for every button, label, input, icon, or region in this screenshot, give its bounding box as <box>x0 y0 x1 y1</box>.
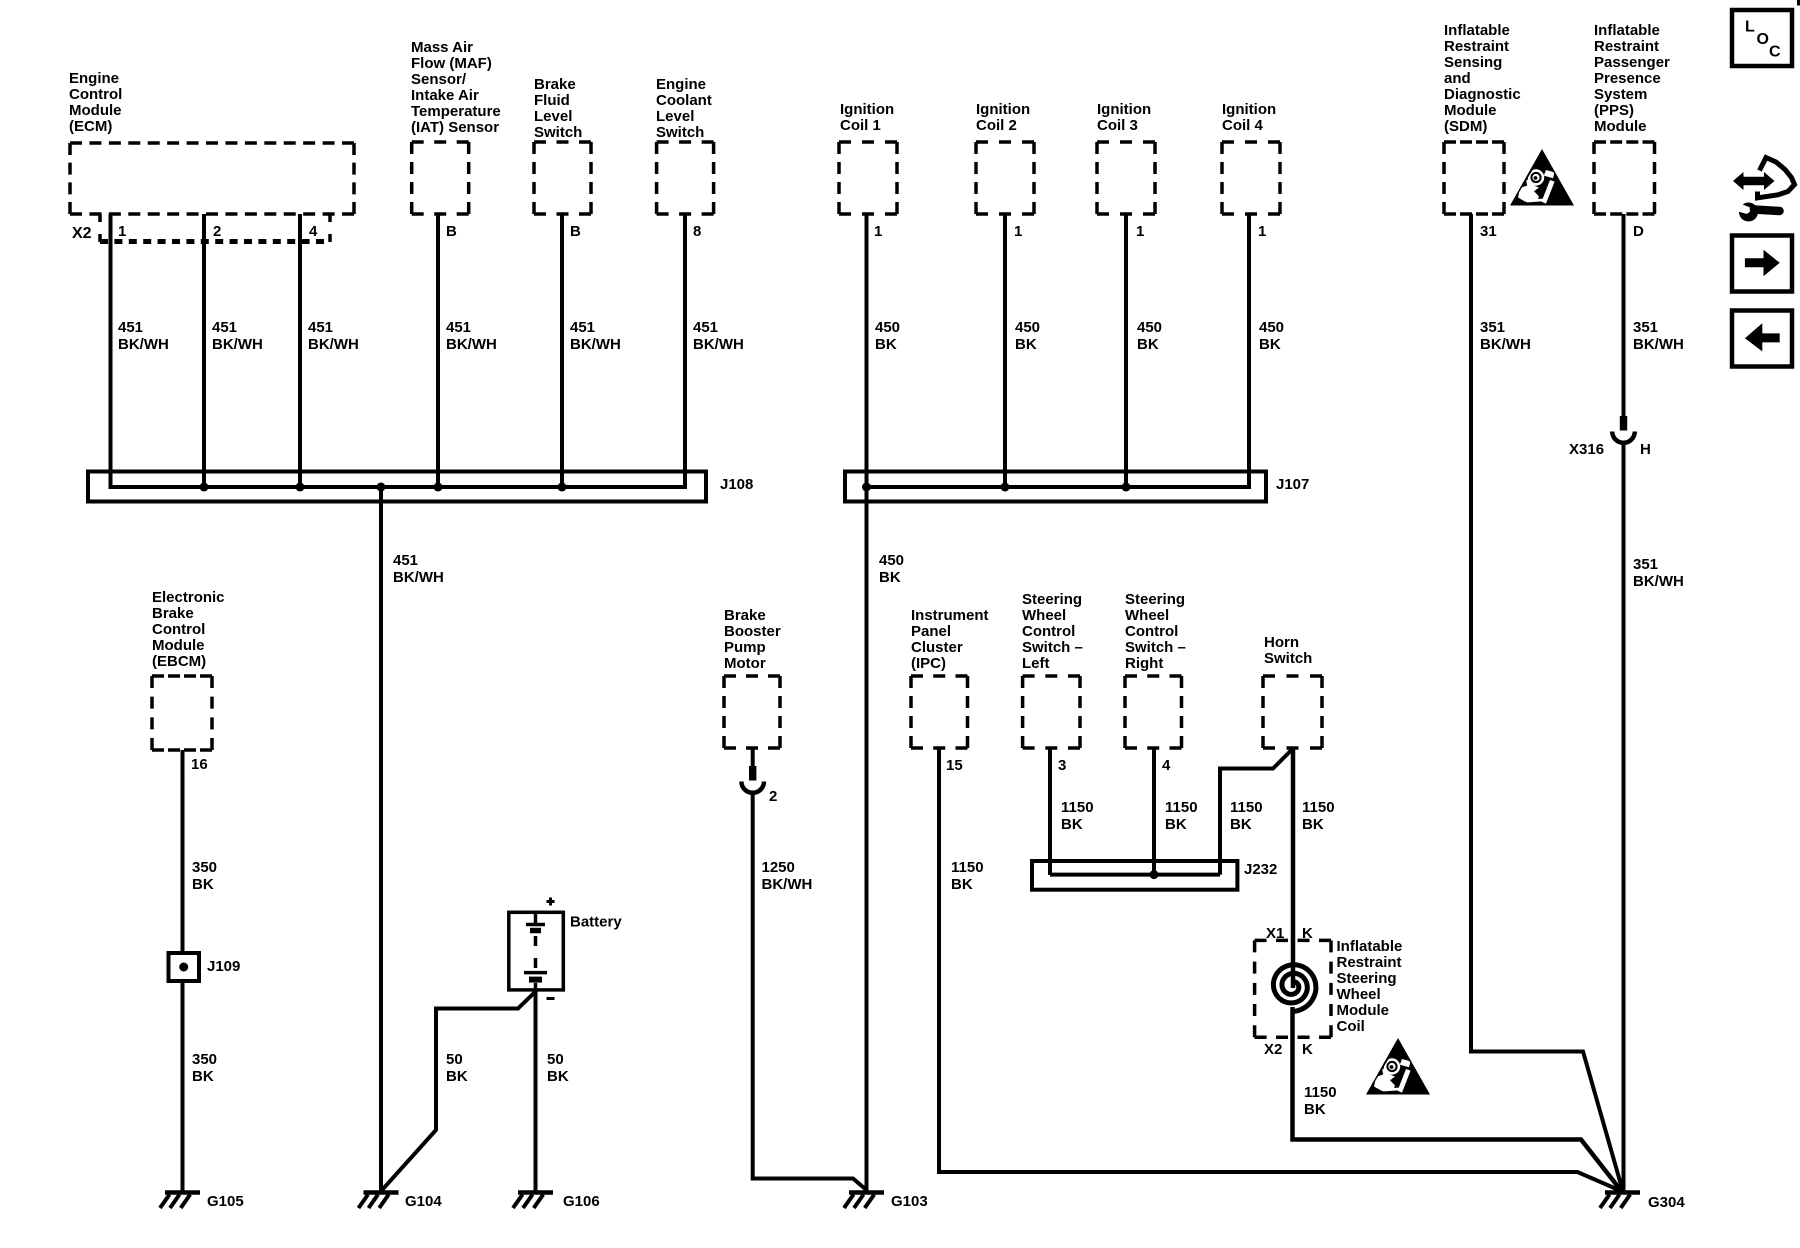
svg-text:451BK/WH: 451BK/WH <box>393 552 444 586</box>
module SWCS Left box <box>1023 676 1080 748</box>
svg-text:J107: J107 <box>1276 476 1309 493</box>
module ECLS box <box>657 142 714 214</box>
battery cells symbol <box>524 912 547 990</box>
BBPM inline connector <box>741 766 764 793</box>
splice pack J107 box <box>845 472 1266 502</box>
wire BFLS pin B to J108 <box>560 214 564 489</box>
ground G104 <box>359 1186 399 1208</box>
icon arrow right box <box>1732 236 1792 292</box>
wire battery negative branch to G104 (50 BK) <box>382 992 536 1191</box>
module steering wheel coil box <box>1255 940 1331 1037</box>
wire PPS pin D to X316 <box>1622 214 1626 416</box>
module Ignition Coil 4 box <box>1222 142 1280 214</box>
connector J109 box <box>169 953 200 981</box>
wire J108 to G104 (451 BK/WH) <box>379 487 383 1192</box>
svg-text:BrakeBoosterPumpMotor: BrakeBoosterPumpMotor <box>724 607 781 672</box>
svg-text:1: 1 <box>1014 223 1022 240</box>
module Ignition Coil 2 box <box>976 142 1034 214</box>
svg-text:450BK: 450BK <box>879 552 904 586</box>
battery minus sign <box>547 997 555 1000</box>
svg-text:2: 2 <box>769 788 777 805</box>
icon LOC box <box>1732 10 1792 66</box>
svg-text:4: 4 <box>1162 757 1171 774</box>
svg-text:1150BK: 1150BK <box>1165 799 1198 833</box>
page corner mark <box>1797 0 1800 6</box>
svg-text:1: 1 <box>118 223 126 240</box>
svg-text:50BK: 50BK <box>547 1051 569 1085</box>
ground G304 <box>1600 1186 1640 1208</box>
svg-text:B: B <box>446 223 457 240</box>
module BBPM box <box>724 676 780 748</box>
svg-text:451BK/WH: 451BK/WH <box>570 319 621 353</box>
junction dots J107 <box>862 483 1131 492</box>
icon arrow left box <box>1732 311 1792 367</box>
svg-text:450BK: 450BK <box>1137 319 1162 353</box>
module EBCM box <box>152 676 212 750</box>
svg-text:450BK: 450BK <box>1259 319 1284 353</box>
wire X316 to G304 (351 BK/WH) <box>1622 442 1626 1192</box>
wire MAF pin B to J108 <box>436 214 440 489</box>
module BFLS box <box>534 142 591 214</box>
svg-text:G106: G106 <box>563 1193 600 1210</box>
SRS warning triangle lower <box>1366 1038 1430 1095</box>
svg-text:InflatableRestraintSensingandD: InflatableRestraintSensingandDiagnosticM… <box>1444 22 1521 135</box>
wire BBPM to connector <box>751 748 755 766</box>
svg-text:J109: J109 <box>207 958 240 975</box>
svg-text:50BK: 50BK <box>446 1051 468 1085</box>
module ECM box <box>70 143 354 214</box>
junction dot J232 <box>1150 870 1159 879</box>
svg-text:IgnitionCoil 1: IgnitionCoil 1 <box>840 101 894 134</box>
svg-text:G304: G304 <box>1648 1194 1685 1211</box>
splice pack J108 box <box>88 472 706 502</box>
svg-text:1150BK: 1150BK <box>951 859 984 893</box>
splice pack J232 box <box>1032 861 1237 890</box>
svg-text:16: 16 <box>191 756 208 773</box>
svg-text:1150BK: 1150BK <box>1302 799 1335 833</box>
svg-text:InflatableRestraintPassengerPr: InflatableRestraintPassengerPresenceSyst… <box>1594 22 1670 135</box>
module Horn Switch box <box>1263 676 1322 748</box>
wire Ignition Coil 1 pin 1 to J107 <box>865 214 869 489</box>
svg-text:451BK/WH: 451BK/WH <box>308 319 359 353</box>
module SWCS Right box <box>1125 676 1182 748</box>
svg-text:2: 2 <box>213 223 221 240</box>
svg-text:1250BK/WH: 1250BK/WH <box>762 859 813 893</box>
svg-text:L: L <box>1745 19 1755 36</box>
svg-text:InstrumentPanelCluster(IPC): InstrumentPanelCluster(IPC) <box>911 607 989 672</box>
J108 bus bar <box>111 485 686 489</box>
ground G105 <box>160 1186 200 1208</box>
module Ignition Coil 1 box <box>839 142 897 214</box>
wire Ignition Coil 4 pin 1 to J107 <box>1247 214 1251 489</box>
svg-text:1: 1 <box>1258 223 1266 240</box>
ground G106 <box>513 1186 553 1208</box>
svg-text:Mass AirFlow (MAF)Sensor/Intak: Mass AirFlow (MAF)Sensor/Intake AirTempe… <box>411 39 501 136</box>
J107 bus bar <box>867 485 1250 489</box>
junction dots J108 <box>200 483 567 492</box>
svg-text:4: 4 <box>309 223 318 240</box>
connector X2 strip <box>100 214 330 242</box>
svg-text:G104: G104 <box>405 1193 442 1210</box>
svg-text:SteeringWheelControlSwitch –Le: SteeringWheelControlSwitch –Left <box>1022 591 1083 672</box>
svg-text:ElectronicBrakeControlModule(E: ElectronicBrakeControlModule(EBCM) <box>152 589 225 670</box>
wire coil X2 to G304 (1150 BK) <box>1293 1007 1622 1191</box>
svg-text:EngineCoolantLevelSwitch: EngineCoolantLevelSwitch <box>656 76 712 141</box>
wire battery negative to G106 (50 BK) <box>534 990 538 1192</box>
svg-text:H: H <box>1640 441 1651 458</box>
svg-text:J108: J108 <box>720 476 753 493</box>
svg-text:X2: X2 <box>1264 1041 1282 1058</box>
module MAF box <box>412 142 469 214</box>
module SDM box <box>1444 142 1504 214</box>
svg-text:351BK/WH: 351BK/WH <box>1633 556 1684 590</box>
svg-text:31: 31 <box>1480 223 1497 240</box>
svg-text:G103: G103 <box>891 1193 928 1210</box>
svg-text:351BK/WH: 351BK/WH <box>1480 319 1531 353</box>
svg-text:D: D <box>1633 223 1644 240</box>
svg-text:InflatableRestraintSteeringWhe: InflatableRestraintSteeringWheelModuleCo… <box>1337 938 1403 1035</box>
wire SWCS Left pin3 to J232 <box>1048 748 1052 875</box>
J232 bus bar <box>1050 873 1220 877</box>
svg-text:351BK/WH: 351BK/WH <box>1633 319 1684 353</box>
wire ECLS pin 8 to J108 <box>683 214 687 489</box>
wire J109 to G105 (350 BK) <box>181 981 185 1192</box>
wire J107 to G103 (450 BK) <box>865 487 869 1192</box>
svg-text:B: B <box>570 223 581 240</box>
svg-text:451BK/WH: 451BK/WH <box>118 319 169 353</box>
svg-text:HornSwitch: HornSwitch <box>1264 634 1312 667</box>
wire Horn Switch to coil X1 (1150 BK) <box>1291 748 1296 988</box>
wire BBPM to G103 (1250 BK/WH) <box>753 792 867 1190</box>
svg-text:IgnitionCoil 2: IgnitionCoil 2 <box>976 101 1030 134</box>
module IPC box <box>911 676 968 748</box>
wire SWCS Right pin4 to J232 <box>1152 748 1156 875</box>
wire ECM pin2 to J108 <box>202 214 206 489</box>
wire IPC pin15 to G304 (1150 BK) <box>939 748 1620 1191</box>
svg-text:SteeringWheelControlSwitch –Ri: SteeringWheelControlSwitch –Right <box>1125 591 1186 672</box>
ground G103 <box>844 1186 884 1208</box>
svg-text:1150BK: 1150BK <box>1304 1084 1337 1118</box>
wire EBCM pin16 to J109 <box>181 750 185 953</box>
battery B+ box <box>509 912 564 990</box>
clockspring coil symbol <box>1273 965 1316 1012</box>
svg-text:8: 8 <box>693 223 701 240</box>
svg-text:1: 1 <box>874 223 882 240</box>
module Ignition Coil 3 box <box>1097 142 1155 214</box>
svg-text:J232: J232 <box>1244 861 1277 878</box>
svg-text:X316: X316 <box>1569 441 1604 458</box>
svg-text:451BK/WH: 451BK/WH <box>212 319 263 353</box>
svg-text:X2: X2 <box>72 225 92 242</box>
connector X316 symbol <box>1612 416 1635 443</box>
svg-text:15: 15 <box>946 757 963 774</box>
svg-text:BrakeFluidLevelSwitch: BrakeFluidLevelSwitch <box>534 76 582 141</box>
wire Ignition Coil 2 pin 1 to J107 <box>1003 214 1007 489</box>
svg-text:IgnitionCoil 4: IgnitionCoil 4 <box>1222 101 1276 134</box>
wire ECM pin4 to J108 <box>298 214 302 489</box>
svg-text:1150BK: 1150BK <box>1061 799 1094 833</box>
svg-text:450BK: 450BK <box>1015 319 1040 353</box>
svg-text:K: K <box>1302 1041 1313 1058</box>
battery plus sign <box>547 898 555 906</box>
icon arrows and wrench <box>1733 158 1795 222</box>
svg-text:EngineControlModule(ECM): EngineControlModule(ECM) <box>69 70 122 135</box>
svg-text:451BK/WH: 451BK/WH <box>693 319 744 353</box>
svg-text:1: 1 <box>1136 223 1144 240</box>
svg-text:1150BK: 1150BK <box>1230 799 1263 833</box>
svg-text:350BK: 350BK <box>192 859 217 893</box>
svg-text:350BK: 350BK <box>192 1051 217 1085</box>
svg-text:450BK: 450BK <box>875 319 900 353</box>
svg-text:3: 3 <box>1058 757 1066 774</box>
wire SDM pin31 to G304 <box>1471 214 1623 1190</box>
svg-text:Battery: Battery <box>570 914 622 931</box>
wire Ignition Coil 3 pin 1 to J107 <box>1124 214 1128 489</box>
svg-text:O: O <box>1757 31 1769 48</box>
svg-text:C: C <box>1769 44 1781 61</box>
SRS warning triangle top <box>1510 149 1574 206</box>
wire Horn Switch to J232 (1150 BK) <box>1220 748 1294 875</box>
wire ECM pin1 to J108 <box>109 214 113 489</box>
svg-text:451BK/WH: 451BK/WH <box>446 319 497 353</box>
module PPS box <box>1594 142 1655 214</box>
svg-text:G105: G105 <box>207 1193 244 1210</box>
svg-text:IgnitionCoil 3: IgnitionCoil 3 <box>1097 101 1151 134</box>
